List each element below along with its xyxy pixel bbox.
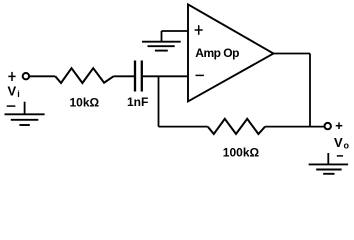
ground stem at input [24,102,26,115]
feedback wire right segment to output terminal [265,126,324,128]
output wire from apex [274,53,311,55]
svg-text:Amp Op: Amp Op [195,46,239,60]
output terminal circle [325,123,331,129]
resistor R1 10k zigzag [55,68,113,83]
svg-text:i: i [17,89,20,99]
svg-text:V: V [8,83,17,98]
svg-text:o: o [344,141,350,151]
ground stem at output [327,153,329,164]
wire capacitor to inverting input [143,75,187,77]
svg-text:V: V [334,135,343,150]
junction wire down to feedback row [158,76,160,126]
capacitor C1 plates [135,61,142,92]
svg-text:100kΩ: 100kΩ [223,146,260,160]
op-amp U1 triangle [188,4,274,101]
input terminal circle [23,73,29,79]
plus input marker [195,25,203,35]
resistor R2 100k zigzag [208,119,265,134]
plus sign at input terminal [8,72,15,81]
output vertical wire down [309,54,311,127]
wire from non-inverting input to ground stem [162,30,188,32]
feedback wire left segment [159,126,208,128]
plus sign at output terminal [336,122,343,129]
ground symbol at non-inverting input [142,42,181,51]
ground symbol at output [309,164,349,173]
wire input terminal to resistor [29,75,55,77]
ground symbol at input [5,114,45,125]
minus sign at output [337,155,343,157]
svg-text:1nF: 1nF [127,95,148,109]
svg-text:10kΩ: 10kΩ [70,96,100,110]
ground stem at non-inverting input [161,31,163,42]
minus sign at input [7,105,16,107]
minus input marker [196,74,204,76]
wire resistor to capacitor [114,75,135,77]
